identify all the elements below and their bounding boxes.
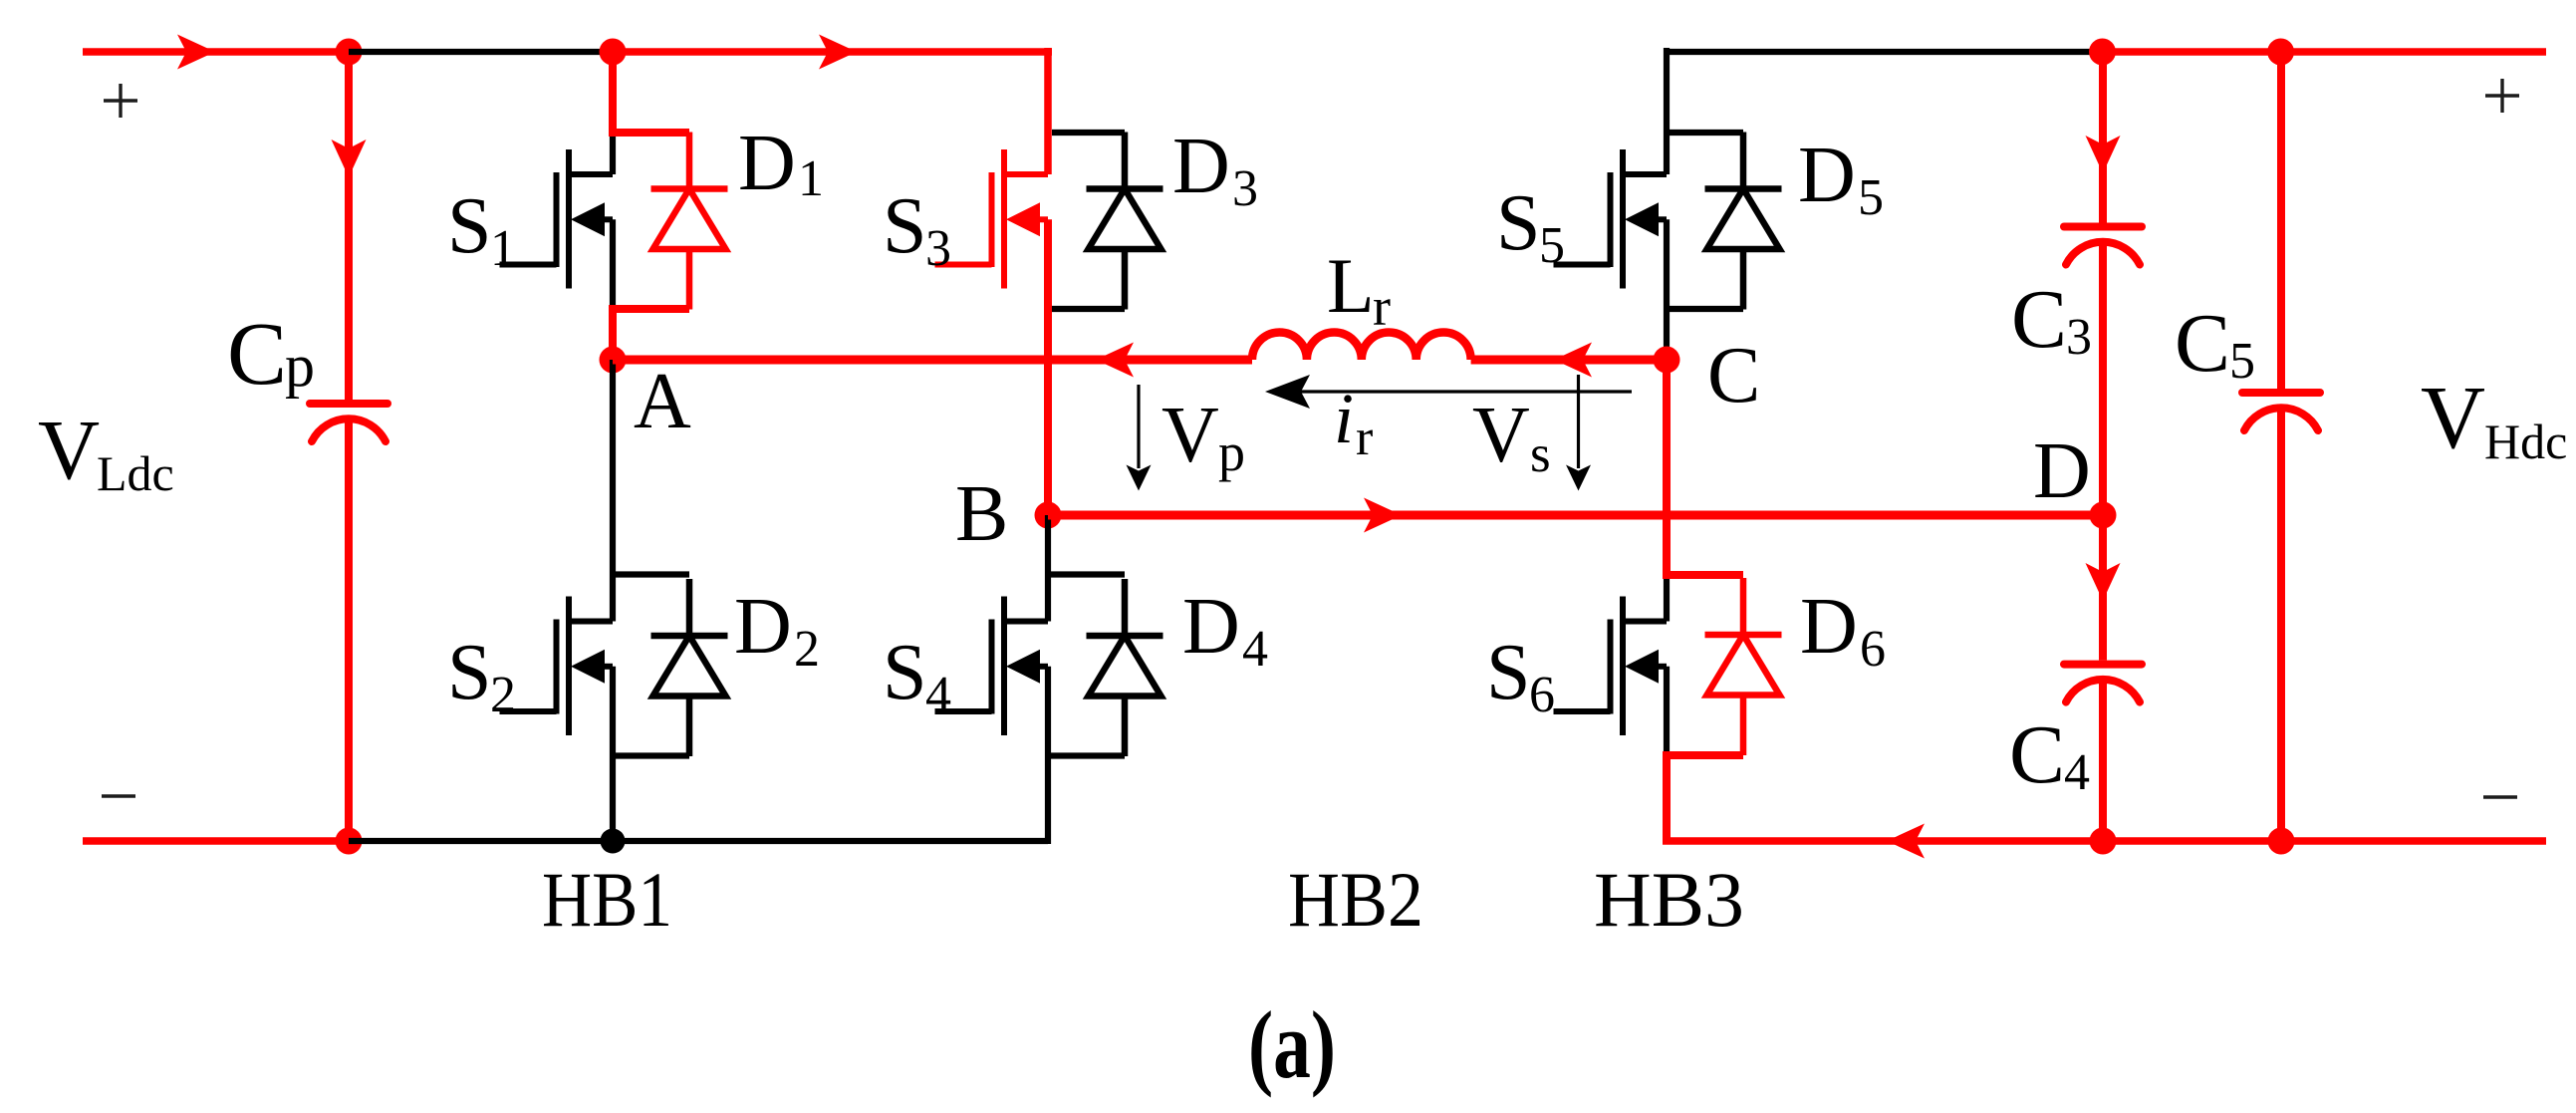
svg-text:3: 3 — [2066, 309, 2092, 366]
wire: node A to S2 drain (black) — [610, 360, 616, 622]
label S5 — [1496, 179, 1565, 274]
wire: node C down to D6 cathode loop (red) — [1663, 360, 1743, 575]
current arrow on Cp branch (down) — [332, 139, 367, 177]
label Lr — [1327, 242, 1391, 337]
wire: D4 anode loop (black) — [1048, 752, 1125, 758]
wire: D5 anode loop to node C (black) — [1667, 309, 1743, 351]
label + (V_Hdc positive terminal) — [2485, 79, 2519, 113]
wire: capacitor C5 branch (red) — [2277, 52, 2285, 841]
label D3 — [1172, 123, 1258, 217]
svg-text:C: C — [2011, 273, 2067, 366]
inductor Lr (red) — [1252, 333, 1471, 360]
label V_s — [1472, 392, 1551, 483]
svg-text:S: S — [1496, 179, 1541, 267]
label S4 — [883, 629, 951, 723]
label C5 — [2175, 297, 2255, 390]
svg-text:3: 3 — [1232, 160, 1258, 217]
current arrow on B-D link (right) — [1364, 498, 1402, 533]
svg-text:D: D — [1798, 132, 1856, 219]
label S2 — [447, 629, 516, 723]
svg-text:Hdc: Hdc — [2484, 414, 2567, 469]
svg-text:D: D — [1182, 583, 1240, 671]
node B junction dot — [1035, 502, 1062, 529]
wire: top rail left (red, V_Ldc +) — [83, 48, 349, 56]
svg-text:D: D — [1172, 123, 1230, 210]
wire: D3 cathode loop (black) — [1052, 130, 1125, 136]
svg-text:4: 4 — [925, 667, 951, 723]
svg-text:C: C — [2175, 297, 2230, 390]
diode D4 — [1087, 579, 1163, 756]
wire: node B to S4 drain (black) — [1045, 515, 1051, 622]
label D6 — [1800, 583, 1886, 678]
diode D5 — [1705, 133, 1782, 310]
wire: top rail, Cp to HB1 (black) — [349, 49, 613, 55]
label C3 — [2011, 273, 2092, 366]
wire: S3 source down to node B (red) — [1044, 219, 1052, 515]
svg-text:C: C — [2009, 708, 2065, 801]
label C4 — [2009, 708, 2090, 801]
svg-text:D: D — [738, 120, 796, 207]
junction dot (bottom rail / C4 branch) — [2090, 828, 2117, 855]
wire: HB1 top corner to D1 (red) — [609, 52, 689, 133]
svg-text:5: 5 — [2229, 333, 2255, 390]
svg-text:4: 4 — [2064, 744, 2090, 801]
svg-text:6: 6 — [1860, 621, 1886, 678]
wire: node A to inductor (red) — [613, 356, 1252, 365]
svg-text:p: p — [1218, 422, 1245, 482]
wire: inductor to node C (red) — [1471, 356, 1667, 365]
wire: top rail right (red, V_Hdc +) — [2102, 48, 2546, 56]
MOSFET S5 — [1554, 149, 1668, 289]
label - (V_Ldc negative terminal) — [102, 794, 135, 797]
wire: S2 drain to D2 loop (black) — [613, 571, 689, 577]
svg-text:V: V — [2421, 369, 2485, 467]
svg-text:HB3: HB3 — [1594, 856, 1744, 943]
voltage arrow V_p (thin, down) — [1127, 385, 1152, 491]
wire: D6 anode loop to bottom rail (red) — [1663, 751, 1743, 841]
svg-text:C: C — [227, 305, 287, 404]
svg-text:S: S — [447, 629, 492, 716]
wire: node B to node D (red) — [1048, 511, 2103, 520]
wire: top rail corner to S5 drain (black) — [1664, 48, 1670, 174]
MOSFET S4 — [935, 597, 1049, 736]
wire: S4 drain to D4 loop (black) — [1048, 571, 1125, 577]
junction dot (bottom rail / HB1, black) — [601, 829, 626, 854]
label Cp — [227, 305, 315, 404]
svg-text:V: V — [1161, 392, 1219, 479]
svg-text:HB1: HB1 — [542, 856, 672, 943]
svg-text:2: 2 — [490, 667, 516, 723]
capacitor C3 — [2064, 227, 2142, 265]
current arrow on A-C link near C (left) — [1554, 343, 1592, 378]
svg-text:S: S — [447, 182, 492, 270]
current arrow on top-middle rail (right) — [819, 35, 857, 70]
current arrow on A-C link (left) — [1096, 343, 1134, 378]
label S1 — [447, 182, 516, 277]
wire: bottom rail left (red) — [83, 837, 349, 845]
svg-text:S: S — [883, 629, 927, 716]
svg-text:D: D — [2033, 427, 2091, 515]
svg-text:r: r — [1356, 410, 1373, 466]
current arrow on bottom-right rail (left) — [1887, 824, 1925, 859]
label V_Hdc — [2421, 369, 2567, 469]
junction dot (bottom rail / Cp) — [336, 828, 363, 855]
wire: bottom rail, Cp to HB2 leg (black) — [349, 838, 1048, 844]
capacitor Cp branch wire (red) — [345, 52, 353, 841]
label - (V_Hdc negative terminal) — [2483, 795, 2517, 798]
label D1 — [738, 120, 824, 207]
svg-text:V: V — [38, 402, 100, 497]
MOSFET S2 — [500, 597, 614, 736]
junction dot (top rail / C3 branch) — [2089, 39, 2116, 66]
current label arrow i_r (thin, left) — [1265, 375, 1632, 409]
capacitor Cp — [310, 404, 387, 441]
node C junction dot — [1654, 347, 1680, 374]
svg-text:C: C — [1707, 332, 1760, 419]
svg-text:1: 1 — [798, 150, 824, 207]
junction dot (top rail / C5 branch) — [2267, 39, 2294, 66]
svg-text:A: A — [634, 358, 691, 445]
node A junction dot — [600, 347, 627, 374]
svg-text:i: i — [1334, 379, 1354, 458]
svg-text:p: p — [285, 333, 315, 399]
label + (V_Ldc positive terminal) — [104, 84, 137, 118]
capacitor C5 — [2242, 393, 2320, 430]
wire: S4 source to bottom rail corner (black) — [1045, 667, 1051, 844]
junction dot (bottom rail / C5 branch) — [2268, 828, 2295, 855]
label i_r — [1334, 379, 1373, 466]
current arrow on C3 branch (down) — [2086, 136, 2121, 173]
MOSFET S3 (red, conducting) — [935, 149, 1049, 289]
label V_Ldc — [38, 402, 174, 501]
svg-text:V: V — [1472, 392, 1530, 479]
node D junction dot — [2090, 502, 2117, 529]
wire: top rail, HB1 to HB2 (red) — [613, 48, 1052, 174]
svg-text:3: 3 — [925, 220, 951, 277]
wire: S5 drain to D5 loop (black) — [1667, 130, 1743, 136]
diode D2 — [651, 579, 728, 756]
svg-text:L: L — [1327, 242, 1375, 329]
capacitor C4 — [2064, 665, 2142, 702]
junction dot (top rail / Cp) — [336, 39, 363, 66]
junction dot (top rail / HB1) — [600, 39, 627, 66]
label S3 — [883, 182, 951, 277]
svg-text:S: S — [883, 182, 927, 270]
label D4 — [1182, 583, 1268, 678]
wire: bottom rail right (red) — [1663, 837, 2546, 845]
wire: S5 source to D5 loop (black) — [1664, 219, 1670, 309]
diode D3 — [1087, 133, 1163, 310]
svg-text:(a): (a) — [1248, 991, 1336, 1098]
diode D6 (red) — [1705, 578, 1782, 755]
svg-text:Ldc: Ldc — [97, 445, 174, 501]
svg-text:4: 4 — [1242, 621, 1268, 678]
svg-text:s: s — [1530, 425, 1551, 483]
svg-text:2: 2 — [794, 621, 820, 678]
MOSFET S1 — [500, 149, 614, 289]
svg-text:1: 1 — [490, 220, 516, 277]
label D2 — [734, 583, 820, 678]
svg-text:6: 6 — [1529, 667, 1555, 723]
svg-text:S: S — [1486, 629, 1531, 716]
svg-text:r: r — [1373, 277, 1391, 337]
current arrow below node D (down) — [2086, 563, 2121, 601]
svg-text:D: D — [734, 583, 792, 671]
wire: S1 source to D1 loop (black) — [610, 219, 616, 309]
svg-text:5: 5 — [1858, 169, 1884, 226]
wire: S6 source to D6 loop (black) — [1664, 667, 1670, 756]
current arrow on top-left rail (right) — [177, 35, 215, 70]
label V_p — [1161, 392, 1245, 482]
wire: capacitor C3/C4 branch (red) — [2099, 52, 2107, 841]
diode D1 (red) — [651, 133, 728, 310]
wire: S1 drain stub (black) — [610, 131, 616, 174]
wire: D3 anode loop (black) — [1048, 306, 1125, 312]
svg-text:D: D — [1800, 583, 1858, 671]
wire: D2 anode loop (black) — [613, 752, 689, 758]
wire: S6 drain stub (black) — [1664, 575, 1670, 622]
wire: S2 source to bottom rail (black) — [610, 667, 616, 841]
svg-text:5: 5 — [1539, 217, 1565, 274]
label D5 — [1798, 132, 1884, 226]
wire: top rail, HB3 to C3 branch (black) — [1667, 49, 2102, 55]
label S6 — [1486, 629, 1555, 723]
wire: D1 anode loop to node A (red) — [609, 305, 689, 360]
svg-text:B: B — [955, 470, 1008, 558]
voltage arrow V_s (thin, down) — [1566, 375, 1591, 491]
MOSFET S6 — [1554, 597, 1668, 736]
svg-text:HB2: HB2 — [1288, 856, 1423, 943]
